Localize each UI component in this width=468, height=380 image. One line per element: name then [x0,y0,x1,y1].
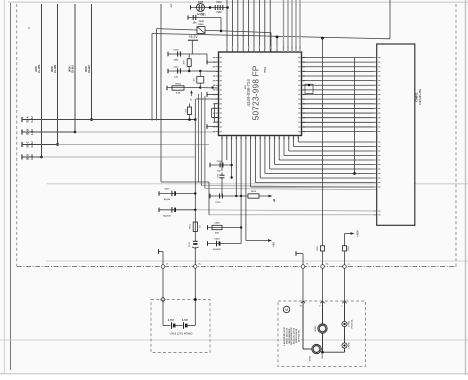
wire vertical x=198.5 column [198,94,200,182]
wire mech 1 inside box [302,301,304,349]
svg-text:R104: R104 [175,82,181,85]
svg-text:TRIM: TRIM [198,21,204,23]
svg-text:50723-998 FP: 50723-998 FP [252,65,261,120]
wire IC601 top bus gray 2 [287,0,289,52]
wire IC601 right pin 6 to CN601 [302,80,377,82]
svg-text:7601: 7601 [263,67,267,73]
resistor R110 vertical [187,59,191,67]
svg-text:9600: 9600 [68,66,72,72]
svg-text:+B: +B [272,199,276,203]
fold line upper [47,183,468,185]
svg-text:SD-C: SD-C [26,141,30,147]
capacitor C134 vertical [221,173,223,176]
svg-text:4349-098-724: 4349-098-724 [246,79,251,107]
capacitor C117 [167,69,169,73]
terminal bar wire SD-B [21,130,23,135]
junction dot pin5 C502 [240,226,242,228]
wire IC601 right pin 9 to CN601 [302,94,377,96]
IC601 pin number marks left [213,57,215,58]
capacitor C510 [158,191,160,195]
junction dot wire1 a [188,118,191,121]
svg-text:1.5V: 1.5V [168,318,174,322]
wire mech feed 3 +10V [351,232,355,235]
wire horizontal SD-B [22,131,75,133]
mechanism box entry marker [342,301,346,303]
svg-text:+5.2V: +5.2V [189,35,199,39]
svg-text:SD-D: SD-D [26,154,30,160]
arrow net196 +B [269,195,273,198]
page top edge line [8,1,468,3]
terminal bar wire SD-A [21,117,23,122]
right dashed pcb boundary [455,4,457,269]
junction dot pin5 net196 [240,195,242,197]
loop wire IC left pins outer [215,103,219,105]
junction dot crystal-cap [209,6,212,9]
decoupling terminal at IC pin2 [207,61,219,63]
svg-text:2300: 2300 [34,66,38,72]
svg-text:+9V: +9V [271,242,275,247]
svg-text:C114: C114 [217,160,223,163]
wire IC601 top pin 7 to sheet edge [258,0,260,52]
wire net B vertical to top edge [389,0,391,39]
svg-text:+10V: +10V [356,230,360,237]
wire vertical net DI-BU x=75.0 [74,4,76,132]
boundary pass-through circle M+ [321,265,325,269]
ferrite bead on motor feed [320,246,324,251]
wire IC601 top bus gray 5 [299,0,301,52]
IC601 left pin stub 9 [216,94,219,96]
junction dot C510 [194,192,196,194]
resistor R104 [166,86,168,90]
svg-text:1.5V: 1.5V [182,318,188,322]
wire IC bottom pin5 down [240,136,242,244]
wire vertical x=156.5 from net A corner [156,29,158,121]
wire IC601 top pin 8 to sheet edge [264,0,266,52]
terminal bar wire SD-D [21,155,23,160]
svg-text:M-: M- [306,264,309,266]
terminal bar C111 [187,15,189,19]
fold line middle [46,260,468,262]
wire IC601 top pin 6 to sheet edge [253,0,255,52]
wire IC601 right pin 12 to CN601 [302,107,377,109]
svg-text:24 VOLT DC: 24 VOLT DC [297,329,300,342]
wire mech join horizontal [321,348,322,350]
wire battery plus below boundary [194,268,196,299]
mechanism box entry marker [301,301,305,303]
wire IC601 top pin 2 to sheet edge [231,0,233,52]
svg-text:47µ/16V: 47µ/16V [163,214,171,217]
junction dot service line [353,172,356,175]
wire IC601 bottom pin nested 1 to CN601 [250,136,252,188]
svg-text:1-BU: 1-BU [30,129,34,135]
junction dot mech join [321,351,324,354]
IC601 left pin stub 12 [216,107,219,109]
wire IC601 bottom pin nested 5 to CN601 [269,136,271,170]
junction dot net B motor feed [321,37,324,40]
wire IC bottom pin6 down [245,136,247,241]
wire IC601 bottom pin nested 10 to CN601 [293,136,295,147]
svg-text:8V110mA: 8V110mA [350,319,353,328]
fold line lower [0,339,468,341]
loop wire IC left pins inner [212,107,219,109]
mechanism dashed box [278,301,365,367]
svg-text:MOT: MOT [322,353,324,359]
wire mech feed 1 [296,253,303,255]
junction dot net B pin feed [276,36,279,39]
wire IC601 right pin 7 to CN601 [302,84,377,86]
wire R104 to IC pin [202,87,219,89]
wire IC601 right pin 5 to CN601 [302,75,377,77]
svg-text:SD-A: SD-A [26,116,30,122]
wire IC601 right pin 14 to CN601 [302,117,377,119]
connector pin number marks [374,57,376,58]
svg-text:M101: M101 [310,355,312,361]
power rail +5.2V bar [188,39,198,41]
wire IC bottom pin4 down [235,136,237,197]
wire IC601 bottom pin nested 8 to CN601 [283,136,285,156]
IC601 left pin stub 15 [216,121,219,123]
wire vertical x=204.9 column to CN [204,96,206,189]
crystal X100 [197,4,205,12]
svg-text:B-: B- [166,264,168,266]
wire vertical net UA-BU x=91.5 [91,4,93,120]
svg-text:47µ/16: 47µ/16 [164,198,171,201]
wire IC601 right pin 13 to CN601 [302,112,377,114]
IC601 left pin stub 11 [216,103,219,105]
svg-text:0-BU: 0-BU [30,116,34,122]
svg-text:C115: C115 [173,49,179,51]
wire IC601 right pin 1 to CN601 [302,57,377,59]
wire crystal net y=7.5 [191,7,228,9]
IC601 pin number marks bottom [221,137,222,140]
wire net B down to IC pin x=277 [276,37,278,52]
wire light y=189.5 to connector [205,189,377,190]
wire IC601 bottom pin nested 11 to CN601 [297,136,299,143]
svg-text:C110: C110 [216,2,222,4]
wire IC601 right pin 15 to CN601 [302,121,377,123]
terminal bar crystal wire [190,5,192,9]
wire IC601 top pin 4 to sheet edge [242,0,244,52]
battery box entry marker plus [194,298,197,301]
svg-text:M: M [285,308,288,312]
IC601 left pin stub 2 [216,61,219,63]
IC601 left pin stub 8 [216,89,219,91]
wire battery minus inside box [162,300,164,326]
terminal bar mech feed 1 [295,251,297,256]
IC601 left pin stub 17 [216,131,219,133]
svg-text:C111: C111 [200,15,206,17]
wire net B horizontal y=34-39 [152,34,390,39]
junction dot C114 [230,164,232,166]
wire x=207 down to ic pin region [206,54,208,62]
wire net A corner down to IC pin [270,33,272,52]
connector CN601 body [377,44,415,225]
wire light y=210.8 to connector [195,210,376,211]
wire IC bottom pin1 down [221,136,223,172]
scan speck [28,27,30,29]
wire IC601 top bus gray 3 [291,0,293,52]
wire IC601 bottom pin nested 2 to CN601 [254,136,256,183]
IC601 left pin stub 7 [216,84,219,86]
resistor R109 vertical above wire1 [187,107,191,114]
IC601 left pin stub 6 [216,80,219,82]
boundary pass-through circle B- [161,265,165,269]
IC601 pin number marks top [226,46,227,49]
wire IC601 right pin 4 to CN601 [302,70,377,72]
wire battery minus [159,251,164,253]
svg-text:3-BU: 3-BU [30,154,34,160]
capacitor C131 [209,194,211,198]
battery holder dashed box [151,300,210,353]
motor M101 [312,344,321,353]
terminal bar wire SD-C [21,142,23,147]
svg-text:2.2K: 2.2K [176,93,181,95]
wire vertical x=209 to CN light wire [208,182,210,215]
wire horizontal SD-D [22,156,42,158]
wire mech 2 inside box [322,301,324,324]
wire horizontal SD-C [22,144,58,146]
ground badge circle M [283,306,289,312]
junction dot R104 right [199,86,201,88]
schematic left frame line [10,3,12,370]
IC601 left pin stub 13 [216,112,219,114]
svg-text:9600: 9600 [50,66,54,72]
svg-text:R513: R513 [251,191,257,193]
junction dot UA-BU [90,118,93,121]
wire horizontal y=182 bracket [161,181,209,183]
svg-text:SD-B: SD-B [26,129,30,135]
wire IC601 right pin 2 to CN601 [302,61,377,63]
IC601 left pin stub 10 [216,98,219,100]
IC601 left pin stub 4 [216,70,219,72]
junction dot C117 right [199,70,201,72]
power arrow +B under R104 [190,90,193,93]
capacitor C511 [158,208,160,212]
pcb/mechanism dash-dot boundary [17,266,456,268]
wire mech feed 3 below boundary [344,268,346,301]
battery box entry marker minus [161,297,165,302]
lamp LP102 [342,343,347,348]
wire IC601 right pin 16 to CN601 [302,126,377,128]
junction dot wire1 b [194,118,197,121]
junction dot CL-MS [56,143,59,146]
wire net y=196 [210,195,248,197]
wire vertical x=322.5 motor line upper [322,38,324,266]
wire battery plus inside box [194,300,196,326]
svg-text:C510: C510 [165,189,171,191]
left dashed pcb boundary [16,4,18,267]
junction dot pin3 end [230,176,232,178]
wire vertical x=152 from net B corner [151,34,153,121]
svg-text:X100: X100 [198,2,204,4]
svg-text:47µ/16V: 47µ/16V [213,248,221,251]
svg-text:47K: 47K [215,232,219,235]
wire IC601 right pin 3 to CN601 [302,66,377,68]
junction dot R104 bracket [211,86,213,88]
wire IC601 top bus gray 4 [295,0,297,52]
motor M102 [318,324,327,333]
wire IC601 right pin 11 to CN601 [302,103,377,105]
boundary pass-through circle B+ [194,265,198,269]
wire IC601 bottom pin nested 9 to CN601 [288,136,290,152]
wire vertical x=354.5 service line [354,58,356,174]
capacitor C503 [207,241,209,245]
op IC601 body 50723-998 FP [219,52,302,136]
IC601 left pin stub 1 [216,57,219,59]
svg-text:3103-601-45S: 3103-601-45S [419,89,422,105]
svg-text:C131: C131 [216,202,222,204]
wire vertical x=161 long from top [160,4,162,182]
wire IC601 bottom pin nested 3 to CN601 [259,136,261,179]
svg-text:LP102: LP102 [348,342,350,349]
ferrite bead on lamp feed [342,246,346,251]
decoupling terminal at IC pin16 [207,126,219,128]
IC601 left pin stub 16 [216,126,219,128]
svg-text:UM3 (2X) 40960: UM3 (2X) 40960 [170,332,193,336]
terminal bar battery minus [158,249,160,254]
page left outer edge [3,0,5,373]
svg-text:2x22: 2x22 [216,12,222,14]
junction dot trim net [220,30,223,33]
svg-text:100n: 100n [174,59,180,61]
wire vertical net CL-MS x=57.5 [57,4,59,145]
svg-text:R541: R541 [198,23,204,26]
svg-text:C117: C117 [173,67,179,69]
wire mech feed 2 below boundary [322,268,324,301]
svg-text:M102: M102 [315,325,317,331]
svg-text:AC: AC [169,4,173,8]
filter component FB101 between rails [199,71,201,88]
wire C111 net y=17.5 [188,17,221,19]
svg-text:10n: 10n [193,23,198,25]
wire IC601 bottom pin nested 4 to CN601 [264,136,266,174]
boundary pass-through circle L+ [343,265,347,269]
wire IC601 top pin 9 to sheet edge [269,0,271,52]
wire C117 to IC pin [200,70,218,72]
wire light y=187 to connector [201,186,376,188]
IC601 left pin stub 3 [216,66,219,68]
capacitor C114 [209,163,211,167]
capacitor C512 vertical electrolytic [193,240,198,242]
IC601 left pin stub 5 [216,75,219,77]
resistor R501 vertical [193,222,197,232]
wire IC601 top pin 5 to sheet edge [248,0,250,52]
wire vertical x=195.3 pin to battery feed [194,99,196,241]
svg-text:C503: C503 [215,239,221,241]
junction dot C511 [194,209,196,211]
junction dot osc bus [226,6,229,9]
page right outer edge [465,0,467,375]
wire lamp to join [344,348,346,352]
svg-text:LP101: LP101 [348,320,350,327]
capacitor C111 [192,15,194,20]
wire horizontal SD-A [22,119,196,121]
junction dot C117/R110 [188,70,190,72]
wire between lamps [344,327,346,343]
wire battery minus below boundary [162,268,164,299]
wire IC bottom pin2 down [226,136,228,161]
capacitor C502 [207,225,209,229]
svg-text:CN601: CN601 [414,92,418,102]
IC601 left pin stub 14 [216,117,219,119]
junction dot pin4 net196 [235,195,237,197]
wire IC601 bottom pin nested 6 to CN601 [274,136,276,165]
decoupling terminal at IC pin9 [207,93,219,95]
svg-text:9600: 9600 [84,66,88,72]
wire lamp feed inside box [344,301,346,321]
wire IC bottom pin3 down [231,136,233,178]
wire pin y=99 from x=196 [196,98,219,100]
wire light y=214.8 to connector [209,214,377,216]
wire mech feed 1 below boundary [302,268,304,301]
resistor R513 on net196 [248,194,259,198]
page bottom edge line [0,373,468,375]
lamp LP101 [342,321,347,326]
wire M102 to join [322,333,324,352]
wire IC601 top pin 3 to sheet edge [237,0,239,52]
wire vertical net CL-WS x=41.5 [41,4,43,157]
capacitor C115 [167,52,169,56]
wire IC601 top bus gray 1 [283,0,285,52]
mechanism box entry marker [320,301,324,303]
wire IC601 top pin 1 to sheet edge [226,0,228,52]
junction dot CL-WS [40,156,43,159]
svg-text:C502: C502 [215,222,221,224]
wire net A horizontal y=30 [157,29,272,33]
wire +9V arrow from pin6 [246,240,268,242]
boundary pass-through circle M- [301,265,305,269]
wire IC601 bottom pin nested 7 to CN601 [278,136,280,161]
wire IC601 right pin 17 to CN601 [302,131,377,133]
battery BT1 cells [163,325,171,327]
loop blob on right pin wires [305,84,313,93]
wire IC601 right pin 8 to CN601 [302,89,377,91]
IC601 pin number marks right [303,57,305,58]
trimmer R541 [197,27,205,34]
wire vertical x=201.3 column to CN [200,92,202,186]
wire vertical x=221 C111 to trim net [220,18,222,31]
svg-text:2-BU: 2-BU [30,141,34,147]
capacitor C110 [214,5,216,10]
wire IC601 right pin 10 to CN601 [302,98,377,100]
junction dot DI-BU [74,131,77,134]
